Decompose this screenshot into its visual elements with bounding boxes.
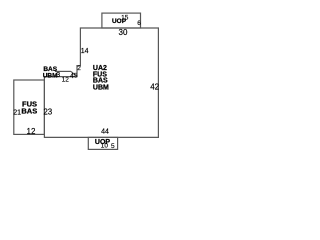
left FUS/BAS box: [14, 80, 45, 134]
bay window diagonal: [71, 71, 77, 76]
svg-text:5: 5: [74, 73, 78, 80]
svg-text:30: 30: [119, 28, 128, 37]
svg-text:5: 5: [111, 143, 115, 150]
svg-text:21: 21: [13, 109, 21, 116]
svg-text:14: 14: [81, 48, 89, 55]
svg-text:44: 44: [101, 129, 109, 136]
svg-text:BAS: BAS: [21, 106, 37, 115]
svg-text:3: 3: [56, 72, 60, 79]
main building outline: [44, 28, 158, 137]
svg-text:6: 6: [137, 20, 141, 27]
svg-text:UBM: UBM: [93, 84, 109, 91]
svg-text:15: 15: [121, 15, 129, 22]
svg-text:2: 2: [77, 65, 81, 72]
bay window top line: [55, 70, 71, 72]
bottom porch UOP box: [88, 137, 117, 149]
svg-text:12: 12: [62, 76, 70, 83]
svg-text:10: 10: [101, 142, 109, 149]
top porch UOP box: [102, 13, 141, 28]
svg-text:42: 42: [150, 83, 159, 92]
svg-text:23: 23: [43, 108, 52, 117]
svg-text:12: 12: [27, 127, 36, 136]
